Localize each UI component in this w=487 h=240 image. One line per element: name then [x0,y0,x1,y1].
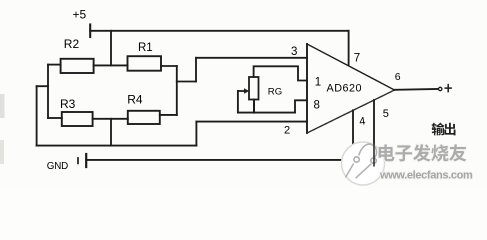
svg-text:5: 5 [383,108,389,120]
wire R3 right to R4 left [93,118,128,120]
svg-text:RG: RG [268,87,282,98]
svg-text:2: 2 [284,125,290,137]
wire bridge bottom node drop [110,119,112,146]
wire output from pin6 [395,88,439,91]
wire pin8 step [295,100,307,112]
wire RG bottom lead [253,100,255,113]
label output chinese 输出 [432,123,456,136]
svg-text:8: 8 [314,99,320,111]
wire bottom run to pin2 riser [37,145,197,147]
wire R1 right lead [161,65,177,67]
wire top rail from +5 to pin7 [90,30,348,32]
watermark text 电子发烧友 [379,144,467,161]
resistor R2 [61,59,94,73]
op-amp U1 AD620 left edge [306,44,308,133]
svg-text:GND: GND [47,161,68,172]
wire R2 right lead to R1 left [94,64,128,66]
potentiometer RG body [249,77,259,100]
wire R3 left lead [48,117,62,119]
wire R2 left lead [48,64,61,66]
wire left outer vertical [36,86,38,145]
svg-text:AD620: AD620 [327,83,363,95]
wire R4 right lead [160,114,177,116]
ground terminal [78,154,86,167]
wire ground rail [86,159,374,161]
wire pin7 drop [348,31,350,65]
svg-text:R2: R2 [64,37,80,51]
svg-text:R1: R1 [138,42,153,54]
wire pin3 riser [195,58,197,82]
op-amp U1 bottom edge [307,90,395,133]
svg-text:4: 4 [358,115,366,128]
node output plus mark [445,85,451,92]
svg-text:R4: R4 [127,92,143,106]
scan artifact left edge (decorative) [0,94,5,118]
wire pin2 riser [195,122,197,146]
svg-text:+5: +5 [73,8,87,22]
svg-text:R3: R3 [60,97,76,111]
resistor R4 [128,111,160,124]
wire drop from top rail to bridge top node [110,31,112,66]
wire pin5 drop overlay [373,144,375,167]
svg-text:www.elecfans.com: www.elecfans.com [379,170,473,182]
watermark logo circle [342,142,385,185]
wire RG bottom run [238,112,295,114]
wire wiper drop [237,91,239,113]
wire right node tap [177,81,196,83]
svg-text:7: 7 [354,53,360,65]
op-amp U1 top edge [307,44,395,90]
wire RG top lead [254,66,307,80]
resistor R3 [62,112,93,126]
wire left node jog [37,85,48,87]
wire pin4 drop [352,110,354,160]
svg-text:1: 1 [315,76,321,88]
wire bridge right node vertical [176,66,178,115]
wire pin3 horizontal [196,57,307,59]
svg-text:3: 3 [291,46,297,58]
wire bridge left node vertical [47,65,49,118]
resistor R1 [128,56,162,70]
node +5 supply terminal [89,25,91,38]
potentiometer RG wiper arrow [238,88,249,94]
wire pin2 horizontal [196,121,307,123]
svg-text:6: 6 [395,71,401,83]
node output terminal circle [439,87,442,90]
wire pin5 drop [373,100,375,160]
